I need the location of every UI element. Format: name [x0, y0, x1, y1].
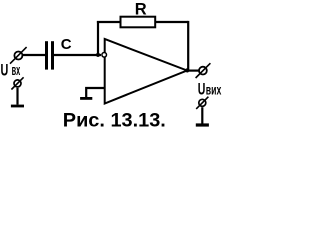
svg-text:вх: вх — [12, 63, 21, 79]
svg-text:C: C — [61, 36, 72, 53]
svg-text:Рис. 13.13.: Рис. 13.13. — [63, 110, 166, 132]
svg-text:U: U — [1, 61, 9, 80]
svg-text:U: U — [198, 81, 206, 99]
svg-text:вих: вих — [206, 82, 222, 98]
svg-text:R: R — [135, 0, 147, 18]
